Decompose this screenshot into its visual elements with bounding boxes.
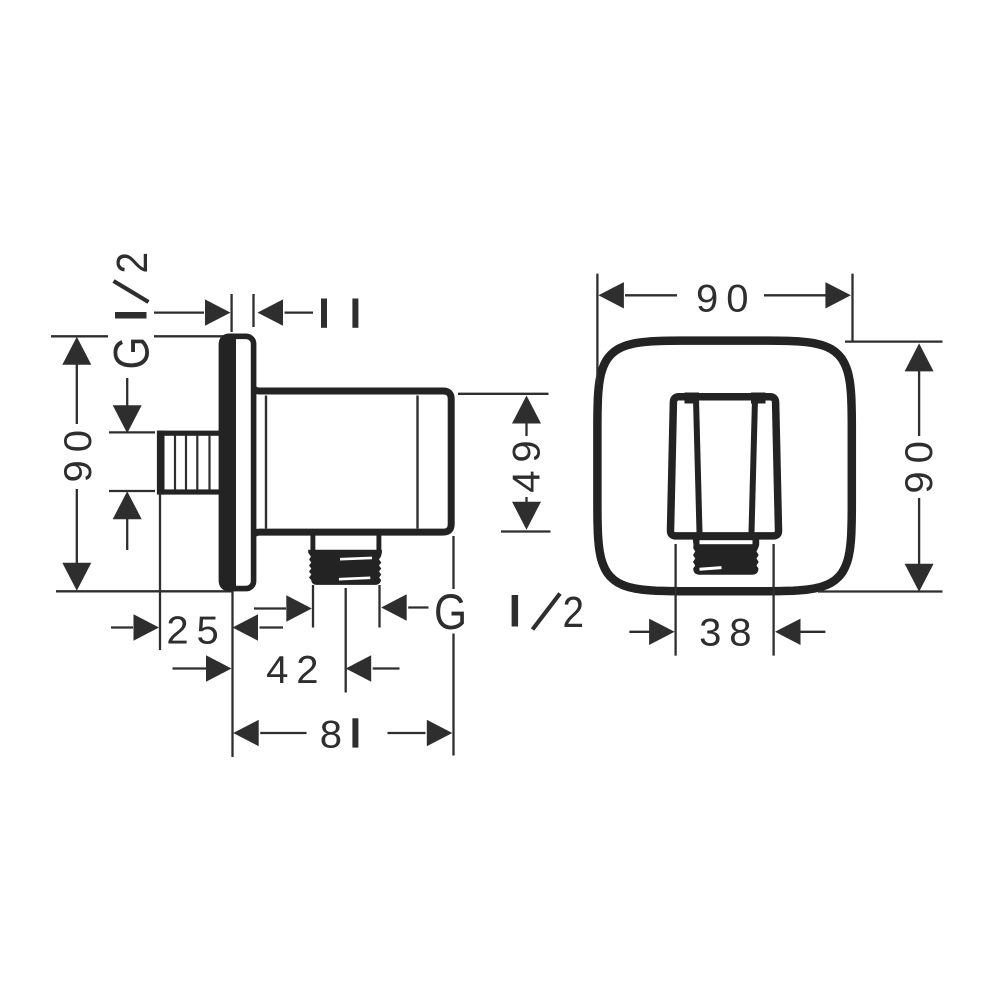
svg-text:38: 38 [699, 611, 759, 654]
body front edge line [265, 396, 267, 529]
42 dim right arrow [346, 655, 372, 681]
svg-text:49: 49 [505, 432, 548, 492]
G1/2 outlet arrows [254, 607, 286, 609]
wall plate front (squircle) [597, 341, 851, 592]
ext line outlet centerline [345, 588, 347, 693]
holder clamp tab left [685, 393, 700, 404]
holder clamp tab right [751, 393, 766, 404]
90 right dim [905, 343, 934, 371]
nipple highlight [700, 568, 722, 570]
90 top ext lines [596, 274, 598, 385]
extension line bottom (90 dim, left view) [56, 590, 233, 592]
inlet spigot dim tick upper [109, 431, 155, 433]
wall plate escutcheon [222, 336, 254, 588]
inlet spigot dim line lower [113, 491, 142, 519]
spigot thread lines [174, 435, 176, 490]
nipple white gap [700, 540, 753, 544]
25 dim left arrow [111, 626, 133, 628]
38 ext lines [674, 544, 676, 656]
body cap edge line [416, 396, 418, 529]
49 dim line [512, 396, 541, 424]
holder inner right edge [752, 399, 756, 533]
svg-text:2: 2 [563, 587, 585, 637]
svg-text:90: 90 [57, 422, 100, 482]
svg-text:2: 2 [107, 252, 157, 274]
arrowhead down (90 dim) [62, 563, 91, 591]
90 right ext lines [845, 340, 943, 342]
label 11 [321, 299, 327, 328]
outlet thread highlight lines [340, 558, 372, 559]
outlet threaded block [308, 550, 382, 585]
outlet neck left wall [310, 532, 315, 552]
svg-text:90: 90 [897, 433, 940, 493]
49 ext line top [458, 393, 549, 395]
spigot thick left edge [157, 431, 165, 495]
wall plate dark edge [219, 334, 236, 592]
ext line x160 (25 dim) [159, 493, 161, 651]
label G1/2 rotated (inlet thread) [103, 252, 159, 370]
svg-text:G: G [434, 584, 467, 640]
outlet body housing [251, 384, 451, 539]
inlet spigot [162, 433, 224, 492]
42 dim left arrow [173, 667, 208, 669]
arrowhead up (90 dim) [62, 337, 91, 365]
ext line outlet right [378, 585, 380, 628]
svg-text:25: 25 [166, 609, 226, 652]
ext line x232 (wall surface) [231, 591, 233, 757]
shower holder bracket outline [670, 397, 778, 536]
25 dim right arrow [233, 614, 259, 640]
svg-text:8: 8 [320, 713, 342, 756]
holder inner left edge [696, 399, 700, 533]
90 top dim [598, 282, 624, 308]
inlet spigot dim tick lower [109, 490, 155, 492]
11 dim left arrow [154, 311, 204, 313]
outlet neck right wall [376, 532, 381, 552]
dimension 90 vertical line (left view) [76, 339, 78, 424]
outlet nipple front [693, 537, 760, 575]
extension line top (90 dim, left view) [51, 335, 108, 337]
38 dim arrows [629, 631, 650, 633]
ext lines for 11 dim [230, 294, 232, 332]
inlet spigot dim line upper [126, 378, 128, 408]
svg-text:90: 90 [696, 277, 756, 320]
81 dim right arrow [388, 732, 426, 734]
49 ext line bottom [501, 530, 551, 532]
ext line outlet left [312, 585, 314, 628]
81 dim left arrow [233, 720, 259, 746]
11 dim right arrow [258, 299, 284, 325]
svg-text:G: G [103, 336, 159, 369]
svg-text:42: 42 [266, 649, 326, 692]
ext line body right x453.5 [452, 536, 454, 589]
